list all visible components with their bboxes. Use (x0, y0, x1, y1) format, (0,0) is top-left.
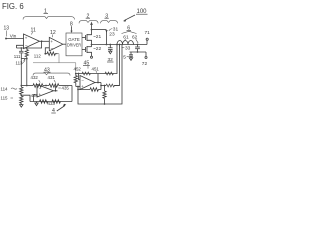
svg-text:115: 115 (1, 96, 9, 101)
wire 43 feedback vertical (55, 86, 57, 91)
transistor 22 (85, 47, 87, 52)
svg-text:432: 432 (31, 75, 39, 80)
wire 12 minus input (45, 48, 49, 54)
resistor on sense A input (105, 72, 113, 75)
svg-text:DRIVER: DRIVER (67, 42, 82, 47)
wire sense B row (101, 85, 105, 87)
svg-text:33: 33 (125, 46, 131, 52)
terminal below 22 (91, 56, 93, 58)
wire op-amp 12 output (63, 43, 66, 45)
svg-text:13: 13 (4, 26, 10, 32)
switch node rail (92, 44, 148, 46)
svg-text:111: 111 (14, 54, 21, 59)
resistor at 12 minus input (45, 52, 57, 56)
sense wire C return (78, 45, 122, 105)
wire right side of 43 (71, 86, 73, 102)
resistor to bottom rail (104, 86, 106, 92)
svg-text:61: 61 (123, 35, 129, 41)
resistor 112 (26, 48, 28, 50)
wire node 23 vertical (106, 31, 108, 45)
svg-text:~21: ~21 (93, 34, 101, 40)
ground bus (130, 51, 147, 53)
wire 43 top input (21, 85, 33, 87)
wire divider tap to 43 plus side (21, 95, 30, 101)
svg-text:−: − (39, 86, 42, 91)
svg-text:+: + (50, 39, 53, 44)
terminal 72 (145, 52, 147, 56)
arrow 31 (105, 30, 107, 33)
capacitor 5 (130, 52, 132, 55)
svg-text:435: 435 (62, 85, 70, 90)
wire minus input stub 11 (17, 45, 24, 48)
svg-text:72: 72 (142, 61, 148, 67)
resistor on plus path (90, 88, 98, 92)
svg-text:62: 62 (132, 35, 138, 41)
svg-text:451: 451 (92, 66, 100, 71)
wire 111 column down to divider (20, 59, 22, 87)
plus input stub 45 (76, 86, 80, 88)
wire from resistor down to 45 (58, 54, 60, 63)
plus input stub 43 (34, 95, 38, 102)
svg-text:434: 434 (31, 93, 39, 98)
svg-text:23: 23 (109, 31, 115, 37)
wire op-amp 11 output (40, 40, 50, 42)
sense wire A from rail (116, 44, 118, 46)
resistor 452 vertical (75, 73, 77, 75)
svg-text:113: 113 (16, 61, 24, 66)
svg-text:112: 112 (34, 54, 42, 59)
wire feedback op-amp 11 (17, 41, 42, 48)
minus input stub 45 (79, 74, 81, 80)
svg-text:~22: ~22 (93, 46, 101, 52)
svg-text:FIG. 6: FIG. 6 (2, 2, 24, 11)
svg-text:71: 71 (145, 30, 151, 36)
wire Vin to op-amp 11 (6, 38, 24, 40)
supply input arrow (91, 25, 93, 31)
svg-text:−: − (81, 77, 84, 82)
inductor 61 (117, 41, 134, 45)
ground under 115 (20, 103, 22, 104)
wire gate driver output low (82, 49, 86, 51)
svg-text:431: 431 (48, 75, 56, 80)
ground in 43 (36, 102, 38, 104)
output junction vertical (100, 83, 102, 90)
op-amp 43 (37, 85, 54, 98)
wire 45 top (76, 73, 114, 75)
resistor 451 feedback (82, 72, 90, 75)
transistor 21 (85, 35, 87, 40)
wire 43 output (54, 90, 58, 92)
plus path row (78, 87, 90, 90)
svg-text:−: − (51, 46, 54, 51)
wire top to node 31 (92, 29, 107, 31)
svg-text:5: 5 (123, 54, 126, 60)
resistor on sense B input (106, 84, 114, 87)
wire gate driver output high (82, 37, 86, 39)
svg-text:452: 452 (74, 66, 82, 71)
svg-text:GATE: GATE (68, 37, 80, 42)
wire 43 bottom (30, 101, 72, 103)
wire joining 111 and 112 (21, 58, 27, 60)
svg-text:Vin: Vin (10, 33, 17, 38)
gate driver box (66, 33, 82, 56)
wire node 113 down to 43 (26, 59, 28, 86)
op-amp 45 (80, 76, 95, 90)
capacitor 32 (109, 45, 111, 48)
svg-text:+: + (25, 36, 28, 41)
capacitor 62 (137, 44, 139, 46)
output terminal 71 (146, 40, 148, 44)
capacitor 111 (20, 48, 22, 51)
svg-text:11: 11 (31, 28, 36, 34)
output 45 (95, 82, 101, 84)
svg-text:+: + (39, 92, 42, 97)
feedback vertical 45 (97, 74, 99, 83)
svg-text:31: 31 (113, 26, 119, 32)
svg-text:114: 114 (1, 87, 9, 92)
sense wire B from rail (119, 44, 121, 46)
